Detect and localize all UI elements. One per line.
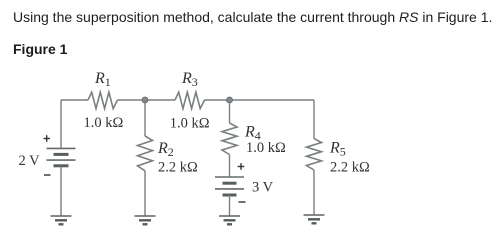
wire R4 to battery 3V <box>229 155 231 178</box>
label battery minus sign <box>44 174 51 176</box>
resistor R5 <box>307 139 322 171</box>
wire node B down to R4 <box>229 100 231 123</box>
svg-text:2.2 kΩ: 2.2 kΩ <box>330 160 370 176</box>
node A junction dot <box>142 97 148 103</box>
wire left branch down to battery <box>60 100 62 148</box>
svg-text:R2: R2 <box>157 140 174 159</box>
ground G3 <box>219 216 240 224</box>
ground G1 <box>51 216 72 224</box>
ground G2 <box>135 216 156 224</box>
svg-text:R5: R5 <box>329 140 346 159</box>
svg-text:1.0 kΩ: 1.0 kΩ <box>246 140 286 156</box>
wire R2 to ground <box>144 171 146 216</box>
wire battery 3V to ground <box>229 195 231 216</box>
battery 2V <box>47 148 76 165</box>
resistor R3 <box>175 92 205 108</box>
label battery 3V plus sign <box>238 163 245 170</box>
svg-text:2.2 kΩ: 2.2 kΩ <box>158 160 198 176</box>
wire top rail: R3 to right corner <box>205 99 315 101</box>
node B junction dot <box>227 97 233 103</box>
wire battery to ground <box>60 166 62 216</box>
svg-text:1.0 kΩ: 1.0 kΩ <box>84 115 124 131</box>
svg-text:1.0 kΩ: 1.0 kΩ <box>170 116 210 132</box>
wire right branch down to R5 <box>313 100 315 139</box>
svg-text:2 V: 2 V <box>19 153 41 169</box>
wire top rail: R1 to R3 <box>118 99 176 101</box>
resistor R4 <box>222 123 237 155</box>
battery 3V <box>215 177 244 195</box>
resistor R2 <box>138 136 153 171</box>
wire R5 to ground <box>313 170 315 215</box>
wire node A down to R2 <box>144 100 146 136</box>
wire top rail: left corner to R1 <box>61 99 88 101</box>
svg-text:3 V: 3 V <box>252 180 274 196</box>
label battery 3V minus sign <box>239 201 246 203</box>
svg-text:R3: R3 <box>181 70 198 89</box>
ground G4 <box>304 215 325 223</box>
resistor R1 <box>88 92 118 108</box>
svg-text:R1: R1 <box>94 70 111 89</box>
label battery plus sign <box>44 135 51 142</box>
